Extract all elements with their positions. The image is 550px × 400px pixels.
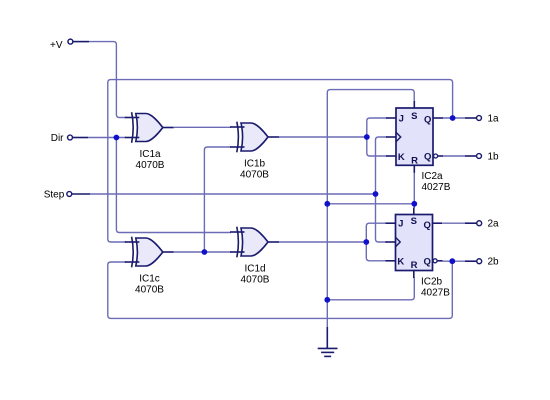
terminal +V <box>68 39 73 44</box>
jk flip-flop IC2a <box>386 101 451 193</box>
jk flip-flop IC2b <box>386 208 451 299</box>
wire Step to clock node <box>90 193 376 195</box>
wire clock node down to IC2b clock <box>376 194 388 242</box>
junction IC2b R ground <box>324 297 330 303</box>
svg-text:IC2b: IC2b <box>421 276 443 287</box>
svg-text:IC1b: IC1b <box>244 159 266 170</box>
svg-text:4070B: 4070B <box>241 275 270 286</box>
svg-text:IC1c: IC1c <box>139 274 160 285</box>
svg-text:4070B: 4070B <box>136 160 165 171</box>
wire IC2a J K tie <box>367 118 387 156</box>
svg-text:IC1a: IC1a <box>139 149 161 160</box>
svg-text:Step: Step <box>44 190 65 201</box>
wire IC2a R down to IC2b S <box>413 172 415 208</box>
svg-text:4070B: 4070B <box>135 285 164 296</box>
svg-text:J: J <box>398 219 403 230</box>
svg-text:J: J <box>399 113 404 124</box>
wire IC1c output to node <box>174 251 204 253</box>
svg-text:2b: 2b <box>488 257 500 268</box>
junction Dir/IC1a <box>114 135 120 141</box>
svg-text:Q: Q <box>424 152 431 163</box>
junction IC1c output <box>202 249 208 255</box>
junction IC2b JK <box>363 239 369 245</box>
wire Q IC2b to 2a terminal <box>443 222 465 224</box>
junction IC2a JK <box>364 134 370 140</box>
wire IC1a output to IC1b top input <box>174 126 231 128</box>
wire clock node up to IC2a clock <box>376 137 388 194</box>
svg-text:4027B: 4027B <box>421 287 450 298</box>
junction Step clock <box>373 191 379 197</box>
wire Q IC2a to 1a terminal <box>443 117 465 119</box>
svg-text:1b: 1b <box>488 152 500 163</box>
wire SR node to ground rail <box>327 203 414 205</box>
svg-text:R: R <box>411 155 418 166</box>
svg-text:S: S <box>411 216 417 227</box>
svg-text:R: R <box>411 260 418 271</box>
wire Dir to IC1a bottom input <box>88 137 126 139</box>
junction 1a <box>450 115 456 121</box>
wire IC1d output to IC2b JK node <box>279 241 366 243</box>
wire Dir branch to IC1d top input <box>116 138 231 233</box>
xor gate IC1c <box>125 237 174 296</box>
svg-text:2a: 2a <box>488 219 500 230</box>
svg-text:K: K <box>398 152 405 163</box>
xor gate IC1b <box>230 122 279 181</box>
terminal 1a <box>465 117 476 119</box>
terminal 1b <box>465 155 476 157</box>
terminal 2b <box>465 260 477 262</box>
xor gate IC1a <box>125 112 174 171</box>
svg-text:K: K <box>397 257 404 268</box>
terminal 2a <box>465 222 477 224</box>
svg-text:Q: Q <box>424 256 431 267</box>
wire Qbar IC2a to 1b terminal <box>443 155 465 157</box>
svg-text:IC1d: IC1d <box>244 264 265 275</box>
wire IC2b J K tie <box>366 223 386 261</box>
wire IC1b output to IC2a JK node <box>279 136 367 138</box>
junction IC2a R / IC2b S <box>411 201 417 207</box>
junction SR ground a <box>324 201 330 207</box>
wire IC2b R to ground rail <box>327 278 414 300</box>
svg-text:IC2a: IC2a <box>422 171 444 182</box>
svg-text:4027B: 4027B <box>422 182 451 193</box>
wire IC2a S to ground rail <box>327 90 414 327</box>
terminal Step <box>67 192 72 197</box>
svg-text:4070B: 4070B <box>240 170 269 181</box>
svg-text:1a: 1a <box>488 114 500 125</box>
svg-text:Q: Q <box>424 115 431 126</box>
wire +V to IC1a top input <box>89 42 126 118</box>
wire 2b feedback to IC1c bottom input <box>108 261 453 318</box>
wire Qbar IC2b to 2b terminal <box>443 260 466 262</box>
svg-text:S: S <box>411 111 417 122</box>
wire 1a feedback to IC1c top input <box>108 80 453 242</box>
svg-text:+V: +V <box>50 40 63 51</box>
ground <box>326 327 328 349</box>
wire node to IC1d bottom input <box>204 251 231 253</box>
svg-text:Dir: Dir <box>51 133 64 144</box>
wire node up to IC1b bottom input <box>204 147 231 252</box>
xor gate IC1d <box>230 227 279 286</box>
junction 2b <box>449 258 455 264</box>
svg-text:Q: Q <box>424 220 431 231</box>
terminal Dir <box>68 135 73 140</box>
